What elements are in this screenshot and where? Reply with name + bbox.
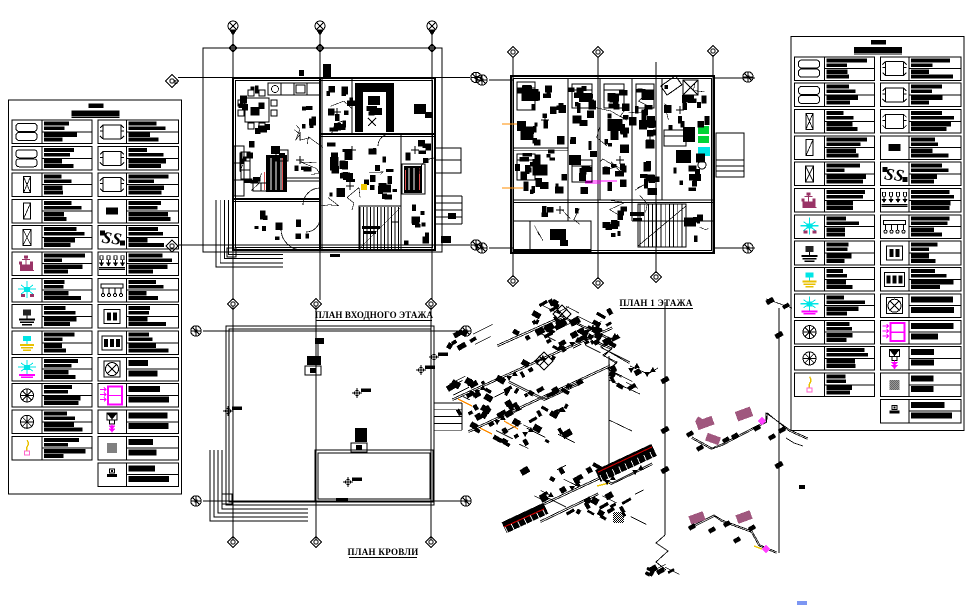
svg-text:ПЛАН КРОВЛИ: ПЛАН КРОВЛИ <box>347 547 418 557</box>
svg-text:ПЛАН ВХОДНОГО ЭТАЖА: ПЛАН ВХОДНОГО ЭТАЖА <box>315 310 434 320</box>
svg-text:Б: Б <box>174 80 178 86</box>
svg-text:ПЛАН 1 ЭТАЖА: ПЛАН 1 ЭТАЖА <box>619 298 693 308</box>
